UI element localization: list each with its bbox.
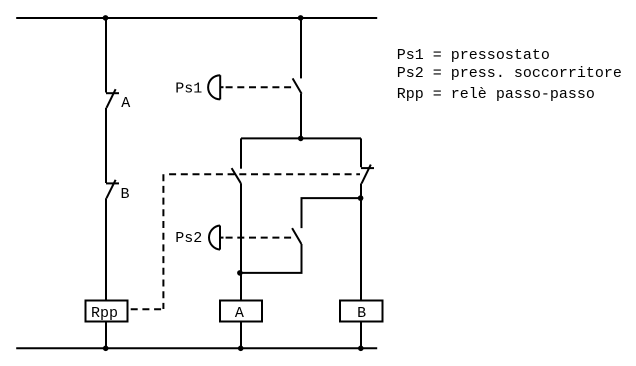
svg-text:Rpp = relè passo-passo: Rpp = relè passo-passo xyxy=(397,86,595,103)
wire Ps2 branch lower to node on left sub-branch xyxy=(241,244,302,273)
svg-text:B: B xyxy=(121,186,130,203)
contact Ps2 (NO pressure switch contact) xyxy=(292,228,301,244)
wire Ps2 branch horizontal from node xyxy=(302,198,362,228)
coil B box xyxy=(340,301,383,322)
dashed actuation link Ps1 to contact xyxy=(226,86,293,88)
dashed actuation link Ps2 to contact xyxy=(226,237,293,239)
wire left sub-branch upper xyxy=(240,138,242,168)
pressure sensor symbol Ps1 xyxy=(208,75,223,99)
wire left branch between A and B xyxy=(105,108,107,183)
wire coil A to bottom bus xyxy=(240,322,242,349)
wire right sub-branch upper xyxy=(360,138,362,167)
wire center branch to middle rail xyxy=(300,94,302,139)
junction node left sub-branch xyxy=(237,270,243,276)
wire bottom supply bus xyxy=(16,347,377,349)
svg-text:Ps2 = press. soccorritore: Ps2 = press. soccorritore xyxy=(397,65,622,82)
svg-text:Ps2: Ps2 xyxy=(175,230,202,247)
wire left branch to Rpp coil xyxy=(105,198,107,300)
junction node right sub-branch xyxy=(358,195,364,201)
coil A box xyxy=(220,301,262,322)
contact A (NC contact of Rpp) xyxy=(106,89,119,108)
contact NC (right, valve B circuit) xyxy=(361,165,374,184)
svg-text:Rpp: Rpp xyxy=(91,305,118,322)
wire left sub-branch to coil A xyxy=(240,183,242,300)
wire top supply bus xyxy=(16,17,377,19)
dashed mechanical link Rpp to contacts: horizontal from coil xyxy=(131,308,164,310)
junction node bottom bus right xyxy=(358,346,364,352)
junction node middle rail xyxy=(298,136,304,142)
contact B (NC contact of Rpp) xyxy=(106,180,119,198)
contact NO (left, valve A circuit) xyxy=(232,168,241,183)
svg-text:Ps1 = pressostato: Ps1 = pressostato xyxy=(397,47,550,64)
contact Ps1 (NO pressure switch contact) xyxy=(293,78,302,93)
wire right sub-branch to coil B xyxy=(360,183,362,300)
dashed mechanical link: vertical riser xyxy=(162,174,164,309)
wire left branch upper segment xyxy=(105,18,107,93)
svg-text:A: A xyxy=(121,95,130,112)
dashed mechanical link: horizontal to A/B contacts xyxy=(169,173,360,175)
svg-text:Ps1: Ps1 xyxy=(175,81,202,98)
junction node bottom bus left xyxy=(103,346,109,352)
svg-text:A: A xyxy=(235,305,244,322)
relay coil Rpp box xyxy=(86,301,128,322)
wire Rpp coil to bottom bus xyxy=(105,322,107,349)
junction node bottom bus center xyxy=(238,346,244,352)
svg-text:B: B xyxy=(357,305,366,322)
wire center branch upper segment xyxy=(300,18,302,78)
junction node top bus left xyxy=(103,15,109,21)
junction node top bus center xyxy=(298,15,304,21)
wire coil B to bottom bus xyxy=(360,322,362,349)
wire middle rail xyxy=(241,137,361,139)
pressure sensor symbol Ps2 xyxy=(209,226,224,250)
